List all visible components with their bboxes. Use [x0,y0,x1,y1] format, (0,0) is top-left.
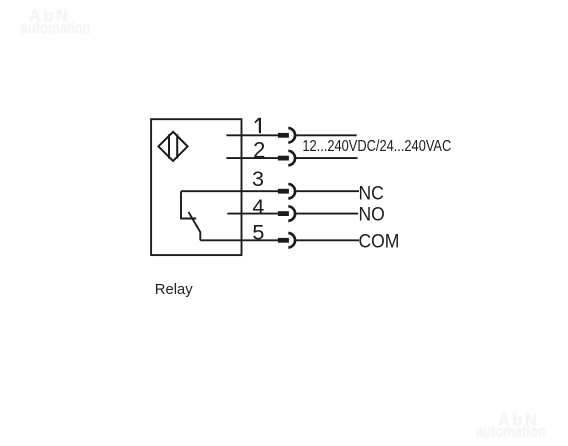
wire pin 5 (left segment, from relay COM) [200,239,278,241]
watermark AbN automation (top-left) [21,7,91,38]
svg-text:2: 2 [253,138,265,163]
svg-text:COM: COM [359,230,400,252]
connector pin 3 [278,184,295,199]
svg-text:automation: automation [21,20,91,38]
sensor body outline [151,119,241,255]
wire pin 3 (left segment, from relay NC) [181,190,279,192]
svg-text:3: 3 [252,167,264,191]
svg-text:NC: NC [359,181,384,203]
wire pin 5 (right segment) [296,239,359,241]
wire pin 2 (right segment) [296,157,357,159]
wire pin 3 (right segment) [296,190,359,192]
relay contact: moving arm to COM [189,212,201,240]
wire pin 1 (left segment) [226,134,278,136]
proximity sensor symbol (diamond with two bars) [158,132,187,161]
wire pin 4 (left segment, NO open contact) [227,213,278,215]
svg-text:4: 4 [252,195,264,219]
connector pin 5 [278,233,295,248]
svg-text:automation: automation [476,424,546,442]
svg-text:12...240VDC/24...240VAC: 12...240VDC/24...240VAC [302,137,451,154]
wire pin 1 (right segment) [296,134,357,136]
watermark AbN automation (bottom-right) [476,412,546,442]
connector pin 1 [278,128,295,143]
connector pin 4 [278,206,295,221]
pin number 1 [255,118,260,133]
svg-text:NO: NO [359,202,385,224]
svg-text:Relay: Relay [155,282,193,298]
relay contact: NC fixed terminal (L from pin 3) [181,191,196,218]
wire pin 2 (left segment) [226,157,278,159]
svg-text:5: 5 [252,221,264,245]
connector pin 2 [278,151,295,166]
wire pin 4 (right segment) [296,213,358,215]
